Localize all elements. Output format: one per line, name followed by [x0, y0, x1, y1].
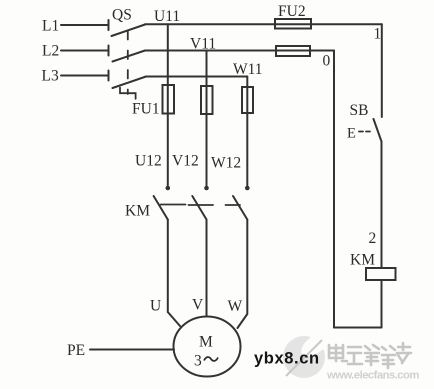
- svg-text:2: 2: [369, 230, 377, 247]
- fuse FU2 upper: [275, 19, 311, 29]
- fuse FU1 pole W: [242, 87, 253, 113]
- svg-text:W12: W12: [211, 155, 241, 172]
- wire control line 1 down right side: [381, 24, 383, 117]
- switch QS handle: [120, 88, 136, 99]
- wire PE: [90, 349, 174, 351]
- svg-text:KM: KM: [125, 203, 150, 220]
- wire bus U11 top: [145, 23, 382, 25]
- wire SB to coil: [381, 142, 383, 269]
- wire V phase vertical: [206, 51, 208, 186]
- fuse FU2 lower: [276, 46, 310, 56]
- pushbutton SB blade: [374, 119, 382, 142]
- wire L2 input: [61, 46, 109, 56]
- svg-text:0: 0: [323, 53, 331, 70]
- switch QS linkage dashed: [127, 31, 129, 94]
- wire control line 0 down: [333, 51, 335, 328]
- watermark elecfans chinese glyphs: [329, 343, 411, 368]
- svg-text:U: U: [150, 298, 161, 315]
- svg-text:KM: KM: [350, 252, 375, 269]
- wire W phase vertical: [246, 77, 248, 186]
- switch QS blade pole 2: [113, 51, 146, 62]
- svg-text:FU1: FU1: [132, 101, 160, 118]
- fuse FU1 pole V: [201, 86, 213, 114]
- svg-text:L1: L1: [42, 18, 59, 35]
- svg-text:E: E: [347, 126, 356, 142]
- switch QS blade pole 1: [112, 25, 146, 37]
- svg-text:U12: U12: [135, 153, 162, 170]
- contactor KM main contact U blade: [154, 196, 168, 220]
- contactor KM main contact W blade: [233, 196, 247, 220]
- contactor KM linkage dash 3: [226, 204, 241, 206]
- contactor KM linkage dash 2: [189, 204, 214, 206]
- node dot W12: [245, 186, 250, 191]
- contactor KM linkage dash 1: [161, 204, 186, 206]
- svg-text:V11: V11: [190, 36, 216, 53]
- wire V phase lower to motor: [206, 220, 208, 317]
- svg-text:V12: V12: [172, 153, 199, 170]
- wire bus W11: [146, 76, 247, 78]
- switch QS blade pole 3: [113, 77, 147, 89]
- svg-text:QS: QS: [112, 7, 132, 24]
- svg-text:1: 1: [374, 26, 382, 43]
- coil KM rectangle: [366, 268, 396, 280]
- wire L3 input: [61, 71, 109, 81]
- svg-text:M: M: [199, 334, 213, 351]
- label 3~ tilde: [204, 357, 218, 361]
- wire L1 input: [61, 20, 109, 30]
- wire W phase lower to motor: [238, 220, 248, 329]
- svg-text:www.elecfans.com: www.elecfans.com: [326, 370, 419, 382]
- watermark logo circle: [283, 327, 335, 378]
- svg-text:SB: SB: [350, 102, 369, 119]
- svg-text:U11: U11: [154, 8, 180, 25]
- svg-text:3: 3: [194, 353, 202, 370]
- motor M circle: [174, 317, 241, 377]
- wire bottom return: [334, 327, 382, 329]
- fuse FU1 pole U: [163, 85, 175, 114]
- svg-text:FU2: FU2: [278, 3, 306, 20]
- svg-text:L2: L2: [42, 43, 59, 60]
- contactor KM main contact V blade: [192, 196, 206, 220]
- svg-text:L3: L3: [42, 68, 59, 85]
- svg-text:V: V: [192, 297, 204, 314]
- svg-text:ybx8.cn: ybx8.cn: [254, 350, 320, 368]
- pushbutton SB actuator dashes: [359, 131, 371, 133]
- svg-text:W: W: [228, 298, 243, 315]
- node dot V12: [204, 186, 209, 191]
- wire U phase vertical: [167, 24, 169, 185]
- wire coil bottom: [381, 280, 383, 328]
- wire bus V11: [145, 50, 334, 52]
- svg-text:W11: W11: [233, 61, 263, 78]
- node dot U12: [166, 186, 171, 191]
- svg-text:PE: PE: [67, 342, 85, 359]
- wire U phase lower to motor: [168, 220, 180, 327]
